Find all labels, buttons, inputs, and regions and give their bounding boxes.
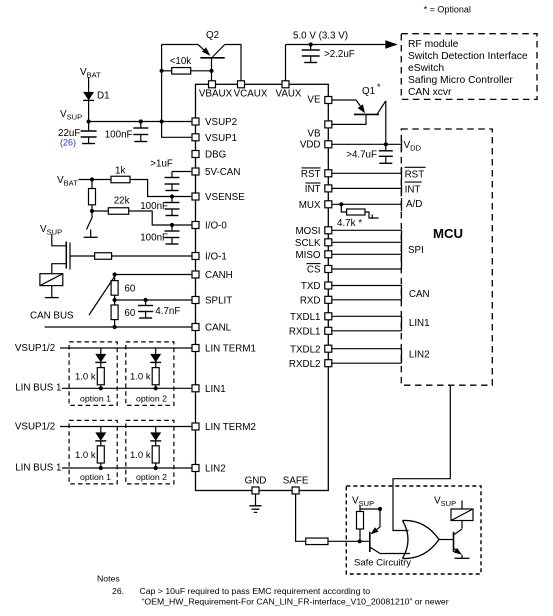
node VSUP rail — [87, 119, 193, 123]
MCU port entry bar — [401, 139, 403, 151]
diode LIN1 option1 — [95, 348, 106, 362]
svg-text:TXD: TXD — [301, 281, 321, 292]
svg-text:DBG: DBG — [205, 150, 226, 161]
svg-text:VB: VB — [307, 129, 321, 140]
wire OR output — [439, 539, 454, 541]
capacitor >4.7uF — [346, 144, 393, 163]
svg-text:Safing Micro Controller: Safing Micro Controller — [408, 75, 513, 86]
svg-text:VDD: VDD — [300, 139, 321, 150]
pin LIN TERM1 (left edge) — [192, 344, 256, 355]
label VSUP (left) — [60, 109, 82, 122]
resistor 1.0k (LIN2 opt1) — [75, 441, 104, 470]
svg-text:LIN2: LIN2 — [205, 464, 226, 475]
svg-text:VAUX: VAUX — [276, 89, 302, 100]
svg-text:1k: 1k — [115, 166, 125, 177]
label LIN BUS 1 (lower) — [15, 463, 61, 474]
diode LIN2 option2 — [150, 427, 161, 441]
wire RST to MCU — [332, 172, 402, 174]
svg-text:TXDL1: TXDL1 — [290, 312, 321, 323]
pin I/O-0 (left edge) — [192, 221, 227, 232]
svg-text:Switch Detection Interface: Switch Detection Interface — [408, 51, 528, 62]
pin VSUP1 (left edge) — [192, 133, 237, 144]
svg-text:LIN BUS 1: LIN BUS 1 — [15, 383, 61, 394]
svg-text:VSUP1/2: VSUP1/2 — [15, 343, 55, 354]
wire VSUP1/2 to LIN TERM1 — [60, 347, 192, 349]
svg-text:Notes: Notes — [97, 574, 120, 584]
capacitor >2.2uF — [302, 45, 355, 63]
wire SPLIT — [113, 298, 193, 302]
option 2 box (LIN2) — [126, 420, 174, 484]
note Notes — [97, 574, 120, 584]
svg-text:“OEM_HW_Requirement-For CAN_LI: “OEM_HW_Requirement-For CAN_LIN_FR-inter… — [142, 597, 449, 607]
wire RXDL1 to MCU — [332, 330, 402, 332]
resistor 60 (bottom) — [111, 300, 118, 327]
svg-text:D1: D1 — [97, 91, 110, 102]
svg-text:CAN: CAN — [409, 289, 430, 300]
capacitor 4.7nF — [138, 300, 180, 318]
resistor safe pull-up — [357, 509, 364, 541]
svg-text:I/O-1: I/O-1 — [205, 252, 227, 263]
wire Q1 collector to VDD node — [384, 101, 388, 146]
wire VSUP to relay — [461, 501, 463, 510]
MCU port entry bar — [401, 349, 403, 364]
svg-text:4.7k *: 4.7k * — [337, 218, 362, 229]
wire LIN BUS 1 to LIN1 — [62, 387, 192, 389]
MCU port entry bar — [401, 198, 403, 211]
svg-text:MUX: MUX — [299, 200, 321, 211]
capacitor 100nF (VSENSE) — [140, 197, 179, 216]
wire CANH — [113, 272, 193, 276]
relay coil (safe) — [451, 509, 473, 521]
pin GND (bottom edge) — [245, 476, 267, 495]
label VSUP1/2 (LIN2) — [15, 421, 55, 432]
svg-text:TXDL2: TXDL2 — [290, 344, 321, 355]
Safe Circuitry box (dashed) — [346, 486, 481, 574]
resistor 1.0k (LIN2 opt2) — [130, 441, 159, 470]
resistor 22k — [108, 196, 129, 215]
option 1 box (LIN1) — [69, 342, 117, 406]
wire RXD to MCU — [332, 299, 402, 301]
pin RST (right edge) — [301, 168, 332, 180]
pin RXDL1 (right edge) — [289, 326, 332, 337]
label VSUP1/2 (LIN1) — [15, 343, 55, 354]
wire left riser to VSUP1 — [162, 45, 192, 138]
label 60 (bottom) — [124, 308, 135, 319]
label VBAT (sense) — [57, 175, 78, 188]
svg-text:100nF: 100nF — [105, 130, 133, 141]
svg-text:option 1: option 1 — [80, 472, 111, 482]
label * = Optional — [424, 5, 471, 15]
svg-text:1.0 k: 1.0 k — [75, 450, 96, 461]
pin MISO (right edge) — [295, 250, 331, 261]
wire INT to MCU — [332, 187, 402, 189]
wire TXDL1 to MCU — [332, 315, 402, 317]
resistor 1.0k (LIN1 opt1) — [75, 362, 104, 390]
svg-text:CANH: CANH — [205, 270, 233, 281]
svg-text:VBAUX: VBAUX — [199, 89, 233, 100]
resistor divider (vertical) — [89, 180, 96, 214]
MCU CAN label — [409, 289, 430, 300]
MCU port entry bar — [401, 183, 403, 195]
MCU port entry bar — [401, 316, 403, 331]
wire 5V rail with arrow to modules — [286, 40, 398, 48]
wire NPN collector to relay — [461, 521, 463, 529]
svg-text:CS: CS — [307, 265, 321, 276]
svg-text:option 1: option 1 — [80, 394, 111, 404]
pin SAFE (bottom edge) — [283, 476, 309, 495]
svg-text:SPLIT: SPLIT — [205, 296, 232, 307]
svg-text:1.0 k: 1.0 k — [130, 450, 151, 461]
MCU port entry bar — [401, 230, 403, 269]
MCU LIN2 label — [409, 350, 430, 361]
svg-text:LIN TERM1: LIN TERM1 — [205, 344, 256, 355]
transistor Q1 label — [362, 82, 381, 97]
svg-text:5V-CAN: 5V-CAN — [205, 167, 240, 178]
ground (safe NPN) — [455, 557, 470, 559]
svg-text:VSUP1/2: VSUP1/2 — [15, 421, 55, 432]
pin VE (right edge) — [307, 94, 331, 105]
svg-text:* = Optional: * = Optional — [424, 5, 471, 15]
svg-text:eSwitch: eSwitch — [408, 63, 444, 74]
svg-text:MOSI: MOSI — [295, 226, 320, 237]
svg-text:INT: INT — [305, 184, 321, 195]
transistor Q1 (PNP) — [354, 100, 386, 114]
wire TXDL2 to MCU — [332, 348, 402, 350]
svg-text:100nF: 100nF — [140, 233, 168, 244]
svg-text:RST: RST — [405, 170, 425, 181]
svg-text:CANL: CANL — [205, 323, 232, 334]
svg-text:GND: GND — [245, 476, 267, 487]
wire CANL — [45, 325, 192, 329]
svg-text:RXD: RXD — [300, 295, 321, 306]
wire MOSFET source to relay — [52, 264, 67, 274]
resistor 1k — [111, 166, 130, 183]
svg-text:CAN BUS: CAN BUS — [30, 311, 74, 322]
pin SPLIT (left edge) — [192, 296, 232, 307]
svg-text:LIN BUS 1: LIN BUS 1 — [15, 463, 61, 474]
pin MOSI (right edge) — [295, 226, 331, 237]
svg-text:1.0 k: 1.0 k — [75, 372, 96, 383]
pin LIN2 (left edge) — [192, 464, 226, 475]
svg-text:5.0 V (3.3 V): 5.0 V (3.3 V) — [293, 31, 348, 42]
wire safe collector to OR — [380, 553, 410, 555]
svg-text:VSUP1: VSUP1 — [205, 133, 237, 144]
svg-text:LIN TERM2: LIN TERM2 — [205, 422, 256, 433]
wire MISO to MCU — [332, 253, 402, 255]
MCU RST label — [405, 167, 426, 180]
option 2 box (LIN1) — [126, 342, 174, 406]
wire resistor to safe circuitry — [328, 539, 370, 543]
resistor 1.0k (LIN1 opt2) — [130, 362, 159, 390]
wire Q1 base to VB — [332, 114, 366, 124]
wire SCLK to MCU — [332, 241, 402, 243]
relay coil (load) — [40, 274, 63, 286]
pin TXD (right edge) — [301, 281, 332, 292]
wire VSUP to MOSFET drain — [52, 234, 67, 246]
wire VDD to MCU — [332, 143, 402, 145]
wire 1k to VSENSE — [130, 180, 192, 199]
svg-text:RXDL1: RXDL1 — [289, 326, 321, 337]
wire Q2 collector to VCAUX — [225, 45, 241, 81]
pin CANH (left edge) — [192, 270, 233, 281]
svg-text:VE: VE — [307, 94, 321, 105]
IC body U1 (SBC) — [196, 84, 329, 490]
pin VDD (right edge) — [300, 139, 332, 150]
capacitor 100nF (VSUP) — [105, 122, 149, 142]
label VSUP (safe left) — [352, 496, 374, 509]
diode LIN2 option1 — [95, 427, 106, 441]
pin DBG (left edge) — [192, 150, 226, 161]
resistor SAFE series — [306, 538, 328, 545]
pin CS (right edge) — [307, 264, 332, 276]
wire gate resistor to I/O-1 — [112, 255, 192, 257]
svg-text:(26): (26) — [60, 138, 76, 148]
svg-text:60: 60 — [124, 284, 135, 295]
wire Q2 base to VBAUX — [209, 58, 213, 81]
svg-text:*: * — [377, 82, 381, 92]
diode D1 — [83, 91, 109, 102]
pin RXD (right edge) — [300, 295, 332, 306]
svg-text:I/O-0: I/O-0 — [205, 221, 227, 232]
svg-text:Q2: Q2 — [206, 30, 219, 41]
svg-text:1.0 k: 1.0 k — [130, 372, 151, 383]
svg-text:Q1: Q1 — [362, 86, 375, 97]
svg-text:option 2: option 2 — [136, 394, 167, 404]
wire CS to MCU — [332, 268, 402, 270]
MCU box (dashed) — [401, 129, 492, 385]
svg-text:SPI: SPI — [408, 245, 424, 256]
pin CANL (left edge) — [192, 323, 232, 334]
MCU port entry bar — [401, 286, 403, 300]
wire <10k leads — [160, 69, 212, 73]
label VSUP (safe right) — [434, 496, 456, 509]
label VSUP (MOSFET) — [40, 224, 62, 237]
MCU INT label — [405, 182, 422, 195]
diode LIN1 option2 — [150, 348, 161, 362]
wire RXDL2 to MCU — [332, 362, 402, 364]
pin TXDL2 (right edge) — [290, 344, 332, 355]
pin I/O-1 (left edge) — [192, 252, 227, 263]
note 26 line 1 — [112, 586, 370, 596]
wire 22k to I/O-0 — [92, 211, 192, 227]
pin TXDL1 (right edge) — [290, 312, 332, 323]
pin VCAUX (top edge) — [234, 81, 268, 100]
wire VBAT stub — [79, 177, 112, 181]
svg-text:>2.2uF: >2.2uF — [324, 49, 355, 60]
label VBAT (top) — [80, 67, 101, 80]
wire VE to Q1 — [332, 99, 356, 101]
option 1 box (LIN2) — [69, 420, 117, 484]
resistor 60 (top) — [111, 275, 136, 301]
svg-text:LIN1: LIN1 — [205, 384, 226, 395]
svg-text:>4.7uF: >4.7uF — [346, 150, 377, 161]
wire MOSFET gate to resistor — [70, 255, 95, 257]
wire D1 to VSUP node — [88, 100, 90, 121]
svg-text:VCAUX: VCAUX — [234, 89, 268, 100]
transistor Q2 label — [206, 30, 219, 41]
MCU port entry bar — [401, 167, 403, 180]
resistor I/O-1 gate — [95, 253, 112, 260]
wire MOSI to MCU — [332, 229, 402, 231]
transistor MOSFET — [66, 242, 70, 270]
switch to ground — [84, 211, 98, 237]
MCU label — [433, 226, 463, 241]
OR gate — [403, 520, 440, 558]
pin VSUP2 (left edge) — [192, 117, 237, 128]
svg-text:MCU: MCU — [433, 226, 463, 241]
wire SAFE down — [296, 494, 306, 541]
svg-text:MISO: MISO — [295, 250, 320, 261]
pin VAUX (top edge) — [276, 81, 302, 100]
resistor <10k — [170, 56, 192, 74]
svg-text:option 2: option 2 — [136, 472, 167, 482]
wire VBAT to D1 — [88, 78, 90, 92]
label 5.0 V (3.3 V) — [293, 31, 348, 42]
svg-text:4.7nF: 4.7nF — [155, 306, 180, 317]
wire MCU to safe circuitry — [393, 385, 450, 530]
svg-text:26.: 26. — [112, 586, 124, 596]
svg-text:SCLK: SCLK — [295, 238, 321, 249]
wire LIN BUS 1 to LIN2 — [62, 467, 192, 469]
MCU VDD label — [404, 140, 422, 153]
RF module box (dashed) — [401, 34, 537, 100]
transistor Q safe (PNP) — [370, 509, 380, 554]
resistor 4.7k (MUX) — [337, 202, 379, 229]
svg-text:Cap > 10uF required to pass EM: Cap > 10uF required to pass EMC requirem… — [140, 586, 371, 596]
svg-text:CAN xcvr: CAN xcvr — [408, 87, 452, 98]
label LIN BUS 1 (upper) — [15, 383, 61, 394]
svg-text:VSENSE: VSENSE — [205, 192, 245, 203]
MCU A/D label — [406, 199, 422, 210]
svg-text:LIN2: LIN2 — [409, 350, 430, 361]
ground (relay) — [45, 297, 59, 299]
label CAN BUS — [30, 311, 74, 322]
MCU LIN1 label — [409, 318, 430, 329]
wire 5V rail to VAUX — [285, 45, 287, 81]
wire TXD to MCU — [332, 285, 402, 287]
pin MUX (right edge) — [299, 200, 332, 211]
svg-text:RST: RST — [301, 169, 321, 180]
note 26 line 2 — [142, 597, 449, 607]
transistor Q safe out (NPN) — [454, 529, 463, 558]
wire 5V-CAN — [172, 171, 192, 173]
svg-text:RXDL2: RXDL2 — [289, 359, 321, 370]
wire MUX to MCU — [332, 203, 402, 205]
wire GND pin to ground — [255, 494, 257, 506]
svg-text:A/D: A/D — [406, 199, 422, 210]
wire VSUP1/2 to LIN TERM2 — [60, 426, 192, 428]
pin RXDL2 (right edge) — [289, 359, 332, 370]
pin LIN TERM2 (left edge) — [192, 422, 256, 433]
transistor Q2 (PNP) — [198, 45, 225, 58]
svg-text:<10k: <10k — [170, 56, 192, 67]
pin 5V-CAN (left edge) — [192, 167, 240, 178]
svg-text:22k: 22k — [114, 196, 130, 207]
pin INT (right edge) — [305, 183, 332, 195]
svg-text:60: 60 — [124, 308, 135, 319]
svg-text:LIN1: LIN1 — [409, 318, 430, 329]
ground (GND pin) — [250, 506, 262, 513]
wire VSUP safe rail — [360, 506, 382, 512]
svg-text:SAFE: SAFE — [283, 476, 309, 487]
MCU SPI label — [408, 245, 424, 256]
pin LIN1 (left edge) — [192, 384, 226, 395]
capacitor >1uF — [150, 159, 179, 191]
svg-text:RF module: RF module — [408, 39, 459, 50]
svg-text:>1uF: >1uF — [150, 159, 173, 170]
wire relay to ground — [51, 286, 53, 298]
svg-text:INT: INT — [405, 184, 421, 195]
wire Q2 top rail — [162, 44, 199, 46]
CAN BUS tap diagonal — [89, 277, 115, 316]
pin VB (right edge) — [307, 121, 331, 140]
pin SCLK (right edge) — [295, 238, 332, 249]
svg-text:100nF: 100nF — [140, 201, 168, 212]
svg-text:VSUP2: VSUP2 — [205, 117, 237, 128]
pin VBAUX (top edge) — [199, 81, 233, 100]
capacitor 100nF (I/O-0) — [140, 225, 179, 244]
capacitor 22uF — [58, 122, 97, 148]
pin VSENSE (left edge) — [192, 192, 245, 203]
